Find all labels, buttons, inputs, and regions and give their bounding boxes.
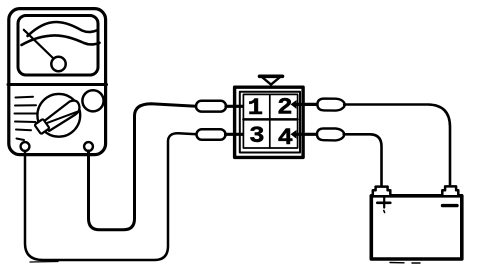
battery minus symbol <box>443 204 458 207</box>
left jack terminal <box>21 142 30 151</box>
multimeter display window <box>18 16 98 76</box>
battery positive post <box>373 187 391 195</box>
wire: pin 2 to battery negative <box>344 105 450 186</box>
multimeter M1 body <box>9 9 106 155</box>
indicator circle (upper right) <box>82 90 103 111</box>
pin 2 stub wire <box>295 103 317 106</box>
pin grid horizontal divider <box>243 118 297 121</box>
svg-text:2: 2 <box>277 96 292 121</box>
probe tip at pin 4 <box>317 128 344 140</box>
pin 3 arrowhead <box>245 130 251 139</box>
svg-text:4: 4 <box>278 126 293 151</box>
pin grid vertical divider <box>269 94 271 148</box>
svg-text:1: 1 <box>248 96 263 121</box>
probe tip at pin 1 <box>196 101 226 112</box>
indicator circle double-stroke arc <box>84 90 103 96</box>
meter needle <box>24 30 54 59</box>
battery negative post <box>442 186 458 195</box>
range hatch marks <box>15 97 37 140</box>
pin 4 stub wire <box>295 133 317 136</box>
meter scale arc upper <box>28 22 98 36</box>
connector J1 outer shell <box>235 87 304 157</box>
connector pin grid box <box>243 94 297 148</box>
pin 4 arrowhead <box>291 130 297 139</box>
battery B1 body <box>371 196 462 259</box>
keying triangle base bar <box>260 75 283 79</box>
probe tip at pin 3 <box>197 129 226 140</box>
pin 1 stub wire <box>226 105 246 108</box>
svg-text:3: 3 <box>249 124 264 149</box>
dial knob end cap <box>34 119 49 134</box>
scan noise specks along meter bottom <box>30 261 58 264</box>
wire: right jack to probe pin1 <box>89 104 197 230</box>
connector keying triangle <box>261 77 280 85</box>
scan noise specks along battery bottom <box>390 262 420 265</box>
connector J1 inner shell <box>240 92 300 153</box>
wire: left jack to probe pin3 <box>25 133 197 260</box>
dial knob facet line <box>47 112 78 123</box>
pin 3 stub wire <box>226 133 247 136</box>
rotary dial circle <box>37 94 80 137</box>
probe tip at pin 2 <box>317 99 344 111</box>
meter needle pivot <box>51 57 65 71</box>
battery plus symbol <box>377 198 390 213</box>
panel divider <box>8 83 107 86</box>
right jack terminal <box>84 142 93 151</box>
meter scale arc lower <box>22 35 100 45</box>
pin 2 arrowhead <box>291 100 297 109</box>
pin 1 arrowhead <box>245 102 251 111</box>
dial knob bar <box>45 101 80 131</box>
wire: pin 4 to battery positive <box>344 134 382 185</box>
